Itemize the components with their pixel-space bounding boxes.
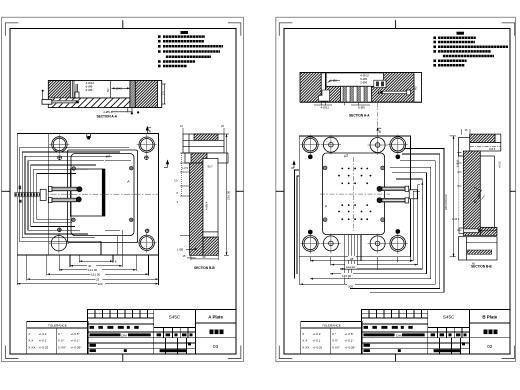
screw S2 L: [49, 197, 82, 203]
section A-A body R: [300, 72, 422, 102]
sheet R corner marks: [279, 23, 514, 359]
bottom dim lines L: [17, 255, 158, 285]
svg-text:25: 25: [96, 277, 100, 281]
svg-text:X.X: X.X: [28, 339, 33, 343]
bottom dim text backs R: [341, 256, 357, 288]
section arrow B right L: [164, 161, 169, 168]
svg-text:60: 60: [413, 86, 417, 90]
svg-text:S45C: S45C: [443, 315, 455, 320]
svg-text:145.00: 145.00: [342, 274, 352, 278]
guide circles L: [51, 137, 154, 251]
svg-text:2-Ø6: 2-Ø6: [86, 88, 93, 92]
section B-B R: [458, 134, 500, 260]
svg-text:+/-0.1: +/-0.1: [39, 339, 47, 343]
pocket corner screws L: [72, 166, 134, 221]
svg-text:SECTION A-A: SECTION A-A: [97, 115, 118, 119]
svg-text:03: 03: [213, 344, 219, 349]
svg-text:A2: A2: [104, 154, 110, 159]
support pin R: [374, 80, 386, 87]
plate extension lines R: [299, 257, 410, 285]
bottom dim texts R: [342, 257, 355, 289]
bottom dim arrows R: [300, 260, 418, 285]
section A-A sprue L: [42, 90, 80, 104]
svg-text:+/-0.2: +/-0.2: [39, 332, 47, 336]
ejector stripes R: [343, 86, 367, 102]
section A-A pin details L: [72, 80, 79, 98]
bottom dim texts L: [88, 259, 117, 286]
notes text block R: [433, 32, 508, 67]
sheet R outer border: [276, 17, 516, 361]
title block cn chars R: [484, 330, 498, 335]
plan pocket L: [68, 150, 138, 243]
svg-text:141.00: 141.00: [88, 268, 98, 272]
svg-text:A: A: [323, 204, 328, 209]
svg-text:+/-0.02: +/-0.02: [39, 345, 49, 349]
ejector pin grid R: [338, 168, 371, 221]
svg-text:SECTION A-A: SECTION A-A: [349, 113, 370, 117]
svg-text:114.00: 114.00: [346, 265, 355, 269]
title block texts L: [169, 314, 224, 349]
plan pocket R: [323, 153, 385, 235]
section B-B left dims L: [174, 153, 190, 236]
svg-text:236.00: 236.00: [227, 190, 231, 200]
section B-B top dims L: [180, 124, 224, 134]
nested runner lines upper L: [19, 148, 129, 242]
section B-B lower leader L: [186, 248, 218, 260]
svg-text:A Plate: A Plate: [208, 314, 223, 319]
svg-text:B: B: [379, 130, 382, 134]
guide circles R top: [302, 137, 405, 153]
svg-text:S45C: S45C: [169, 315, 181, 320]
section centerline R: [377, 102, 379, 136]
pocket inner leader lines L: [101, 161, 131, 255]
svg-text:3.0: 3.0: [174, 179, 178, 183]
svg-text:1-0.5: 1-0.5: [182, 166, 188, 170]
vertical dim R: [450, 136, 457, 257]
svg-text:A: A: [149, 130, 152, 134]
svg-text:B Plate: B Plate: [482, 314, 497, 319]
section A-A dims L: [86, 81, 166, 114]
screw S1 L: [49, 187, 83, 192]
guide circle crosshairs L: [49, 134, 157, 253]
title block cn chars L: [210, 330, 224, 335]
sheet L inner frame: [10, 28, 236, 354]
svg-text:10: 10: [162, 91, 166, 95]
svg-text:15: 15: [183, 254, 186, 258]
svg-text:TOLERANCE: TOLERANCE: [48, 324, 67, 328]
title block L: [87, 310, 235, 354]
svg-text:161.00: 161.00: [91, 273, 101, 277]
svg-text:50.7: 50.7: [208, 165, 214, 169]
svg-text:25: 25: [221, 124, 224, 128]
sheet L outer border: [2, 17, 244, 361]
section arrow A top L: [146, 127, 152, 134]
svg-text:SECTION B-B: SECTION B-B: [194, 266, 215, 270]
tolerance table L: [27, 321, 88, 353]
below-pocket vertical lines R: [345, 235, 361, 285]
svg-text:110.5: 110.5: [489, 147, 496, 151]
svg-text:2-Ø6: 2-Ø6: [360, 80, 367, 84]
svg-text:+/-0.1°: +/-0.1°: [71, 339, 81, 343]
section B-B L: [183, 134, 228, 255]
notes text block L: [158, 31, 223, 67]
svg-text:16: 16: [180, 124, 183, 128]
eyebolt notch L: [87, 134, 91, 140]
sheet R inner frame: [284, 28, 510, 354]
plan view plate R: [299, 136, 410, 257]
svg-text:CHK: CHK: [121, 334, 127, 338]
section A-A dims R: [320, 74, 417, 110]
svg-text:8: 8: [115, 259, 117, 263]
svg-text:6-Ø5: 6-Ø5: [358, 105, 365, 109]
svg-text:X.XX°: X.XX°: [58, 345, 67, 349]
svg-text:200: 200: [98, 282, 103, 286]
svg-text:X.XX: X.XX: [28, 345, 35, 349]
centerline L: [19, 193, 158, 195]
sheet R center ticks: [276, 20, 516, 361]
datum label R: [323, 154, 348, 209]
title block revision marks L: [90, 326, 193, 352]
plan centerline R: [320, 193, 390, 195]
svg-text:4-Ø5.4: 4-Ø5.4: [205, 201, 209, 210]
svg-text:A2: A2: [342, 154, 348, 159]
sheet L corner marks: [5, 23, 240, 359]
svg-text:CHK: CHK: [396, 334, 402, 338]
cooling channel R: [379, 90, 411, 95]
tolerance table R reuse: [301, 321, 362, 353]
bottom dim text backs L: [87, 264, 105, 286]
svg-text:02: 02: [487, 344, 493, 349]
svg-text:X.X°: X.X°: [58, 339, 65, 343]
svg-text:226.00±0.02: 226.00±0.02: [444, 194, 448, 210]
svg-text:X: X: [28, 332, 30, 336]
cavity insert L: [71, 169, 105, 216]
svg-text:200: 200: [348, 284, 353, 288]
svg-text:4: 4: [177, 200, 179, 204]
svg-text:SECTION B-B: SECTION B-B: [471, 264, 492, 268]
svg-text:28: 28: [350, 257, 354, 261]
svg-text:+0.05: +0.05: [498, 161, 502, 168]
svg-text:1-Ø8: 1-Ø8: [177, 247, 183, 251]
sheet L center ticks: [2, 20, 244, 361]
svg-text:4-Ø5.4: 4-Ø5.4: [103, 110, 113, 114]
section B-B texts R: [452, 128, 502, 221]
svg-text:16: 16: [465, 128, 468, 132]
svg-text:A: A: [126, 179, 131, 184]
section B-B pocket detail R: [474, 187, 485, 203]
svg-text:50: 50: [106, 88, 110, 92]
svg-text:+/-0.05°: +/-0.05°: [71, 345, 83, 349]
right wrap lines R: [300, 149, 444, 293]
svg-text:8: 8: [177, 191, 179, 195]
left wrap lines R: [295, 170, 300, 279]
section A-A body L: [48, 80, 161, 107]
left section arrow R: [291, 161, 295, 168]
sprue corner R: [319, 90, 330, 101]
small screw holes L: [57, 155, 149, 233]
title block texts R: [396, 314, 498, 349]
connector cluster L: [15, 186, 46, 203]
section B-B right dim L: [224, 134, 229, 255]
side screw detail R: [459, 228, 497, 233]
svg-text:50: 50: [203, 255, 206, 259]
pocket corner screws R: [323, 166, 385, 222]
plan view plate L: [17, 134, 158, 256]
small lock screws R: [308, 155, 400, 234]
datum labels L: [104, 154, 130, 184]
guide circles R bottom: [302, 236, 405, 252]
circle crosshairs R: [300, 135, 408, 254]
svg-text:4-Ø12: 4-Ø12: [320, 105, 329, 109]
svg-text:+/-0.5°: +/-0.5°: [71, 332, 81, 336]
svg-text:X °: X °: [58, 332, 63, 336]
core screws R: [377, 182, 423, 207]
title block R reuse: [361, 310, 509, 354]
